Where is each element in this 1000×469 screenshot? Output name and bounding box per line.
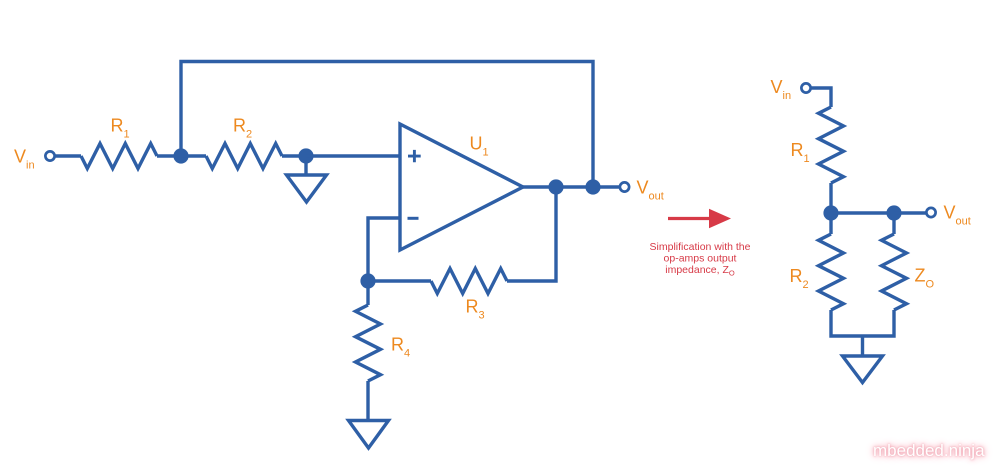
caption: simplification note (650, 241, 751, 278)
resistor R2 (206, 144, 282, 169)
node N5 (output/feedback junction) (585, 179, 600, 194)
wire node N6 to R2 (right circuit) (829, 213, 832, 234)
wire R1 to node N1 (157, 154, 181, 157)
op-amp U1 minus (inverting input marker) (408, 217, 419, 220)
wire node N6 to node N7 (831, 211, 894, 214)
wire R1 to node N6 (829, 183, 832, 213)
node N2 (R2/ground/op-amp junction) (298, 148, 313, 163)
resistor R2 (right circuit) (819, 234, 844, 310)
wire node N1 to R2 (181, 154, 206, 157)
svg-text:R2: R2 (790, 266, 809, 291)
svg-text:U1: U1 (470, 134, 489, 159)
node N4 (R3/R4/inverting-input junction) (360, 273, 375, 288)
svg-text:R3: R3 (466, 297, 485, 322)
wire node N4 to R3 (368, 279, 431, 282)
wire inverting input to node N4 (368, 218, 400, 281)
svg-text:R4: R4 (391, 335, 410, 360)
watermark mbedded.ninja (873, 441, 993, 461)
svg-text:R1: R1 (791, 140, 810, 165)
op-amp U1 (triangle body) (400, 124, 523, 250)
svg-text:Vin: Vin (771, 77, 792, 102)
resistor R3 (431, 269, 507, 294)
wire R4 to ground (366, 381, 369, 421)
svg-text:R2: R2 (233, 116, 252, 141)
wire R3 up to output node N3 (507, 187, 556, 281)
wire node N7 to ZO (892, 213, 895, 234)
ground (right circuit) (843, 356, 883, 383)
resistor R4 (356, 305, 381, 381)
svg-text:Simplification with the: Simplification with the (650, 241, 751, 253)
ground (below R4) (349, 421, 389, 449)
wire Vin to R1 (56, 154, 82, 157)
arrow (simplification) (668, 209, 731, 229)
wire node N7 to terminal Vout (894, 211, 926, 214)
resistor R1 (81, 144, 157, 169)
wire Vin terminal to R1 (right circuit) (812, 88, 832, 107)
node N6 (R1/R2 junction, right circuit) (823, 205, 838, 220)
ground (below node N2) (287, 175, 327, 202)
resistor R1 (right circuit) (819, 107, 844, 183)
wire op-amp output to terminal Vout (523, 185, 619, 188)
svg-text:Vin: Vin (14, 147, 35, 172)
terminal Vout (open circle) (620, 182, 629, 191)
wire R2 bottom to join (831, 310, 894, 336)
wire join to ground stub (right circuit) (861, 336, 864, 356)
wire R4 top lead (366, 281, 369, 305)
svg-text:ZO: ZO (915, 266, 935, 291)
wire R2 to node N2 (282, 154, 306, 157)
node N1 (R1/R2/feedback junction) (173, 148, 188, 163)
node N7 (ZO/Vout junction, right circuit) (886, 205, 901, 220)
wire node N2 to ground stub (304, 156, 307, 175)
svg-text:op-amps output: op-amps output (664, 253, 737, 265)
terminal Vin (open circle) (45, 151, 54, 160)
wire feedback (node N1 up, across top, down to node N3) (181, 62, 593, 188)
op-amp U1 plus (non-inverting input marker) (408, 150, 421, 162)
wire node N2 to op-amp non-inverting input (306, 154, 400, 157)
node N3 (output/R3 junction) (548, 179, 563, 194)
terminal Vout right (open circle) (926, 208, 935, 217)
svg-text:Vout: Vout (944, 203, 971, 228)
svg-text:R1: R1 (111, 116, 130, 141)
impedance ZO (resistor) (882, 234, 907, 310)
svg-text:Vout: Vout (637, 178, 664, 203)
terminal Vin right (open circle) (801, 83, 810, 92)
svg-text:impedance, ZO: impedance, ZO (665, 264, 735, 278)
